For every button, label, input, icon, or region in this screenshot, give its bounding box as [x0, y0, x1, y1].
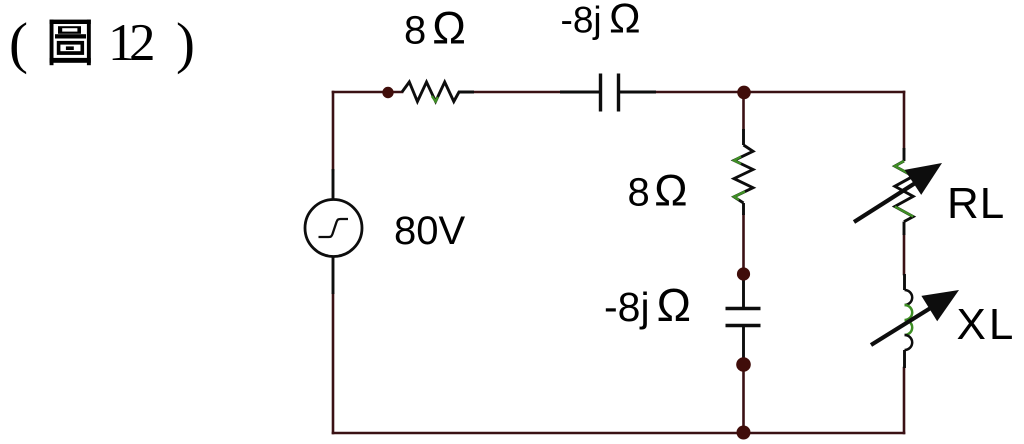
svg-text:80V: 80V [394, 209, 465, 253]
svg-text:XL: XL [957, 300, 1017, 349]
svg-text:2: 2 [129, 14, 156, 72]
svg-text:): ) [176, 12, 195, 75]
svg-text:8Ω: 8Ω [628, 167, 688, 216]
svg-text:-8jΩ: -8jΩ [604, 279, 691, 331]
svg-text:8Ω: 8Ω [404, 3, 466, 54]
svg-text:-8jΩ: -8jΩ [561, 0, 641, 42]
svg-text:(: ( [9, 12, 28, 75]
svg-text:RL: RL [947, 179, 1005, 228]
